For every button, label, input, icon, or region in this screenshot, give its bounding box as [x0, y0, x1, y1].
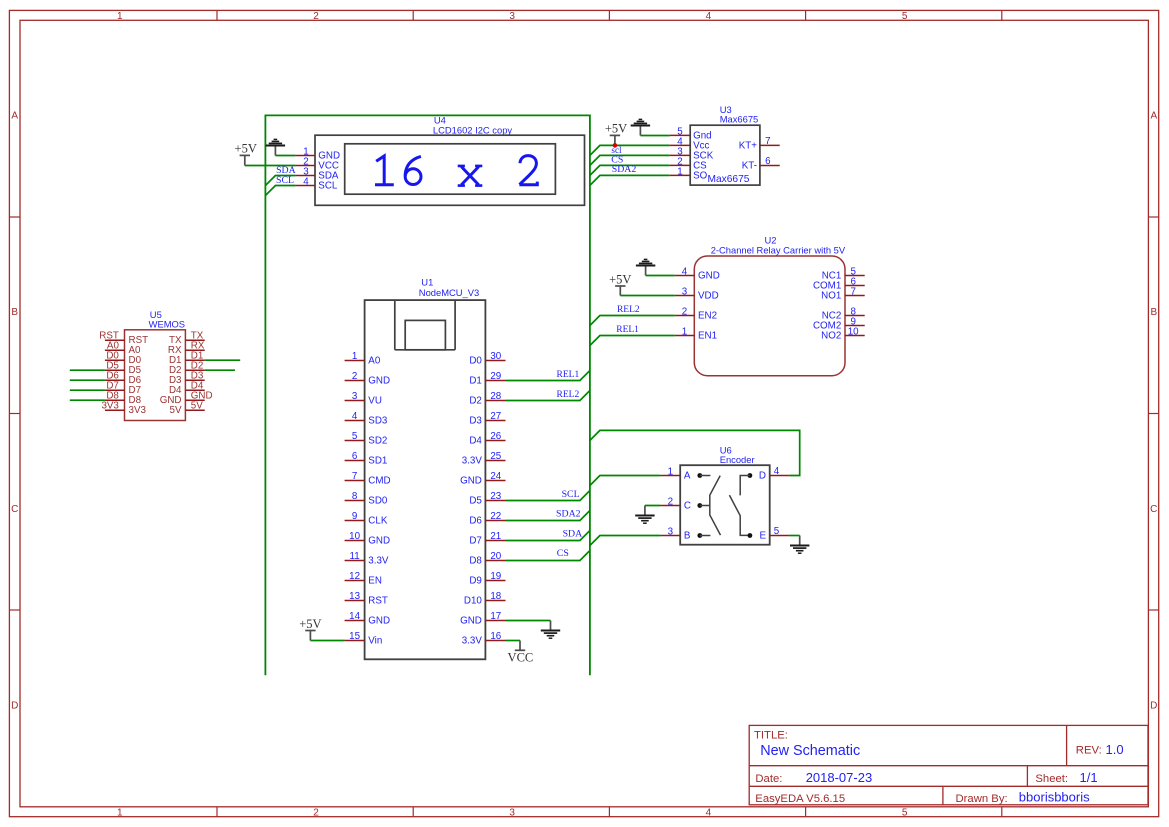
wire bus to U6 D loop: [590, 430, 800, 475]
svg-text:GND: GND: [368, 376, 390, 387]
svg-text:4: 4: [774, 466, 780, 477]
wire +5V to U2 VDD: [620, 295, 675, 297]
wire U5 D1 stub right: [205, 359, 241, 361]
svg-text:6: 6: [352, 451, 358, 462]
svg-text:29: 29: [490, 371, 501, 382]
svg-text:12: 12: [349, 571, 360, 582]
svg-text:9: 9: [352, 511, 357, 522]
svg-text:SD0: SD0: [368, 496, 388, 507]
svg-text:16: 16: [490, 631, 501, 642]
wire bus to U2 EN1: [590, 336, 675, 346]
svg-text:C: C: [1150, 504, 1157, 515]
svg-text:Max6675: Max6675: [708, 174, 750, 185]
svg-text:EasyEDA V5.6.15: EasyEDA V5.6.15: [755, 793, 845, 805]
svg-text:14: 14: [349, 611, 360, 622]
svg-text:VU: VU: [368, 396, 382, 407]
svg-text:NO1: NO1: [821, 291, 841, 302]
ground bar symbol at U3 Gnd: [631, 119, 650, 135]
svg-text:1: 1: [117, 807, 123, 818]
svg-text:D6: D6: [469, 516, 482, 527]
svg-text:CS: CS: [557, 548, 569, 559]
title block: [749, 725, 1148, 805]
svg-text:3: 3: [509, 807, 515, 818]
svg-text:3V3: 3V3: [101, 400, 119, 411]
svg-text:SD1: SD1: [368, 456, 387, 467]
svg-text:18: 18: [490, 591, 501, 602]
svg-text:+5V: +5V: [299, 617, 321, 631]
net label SCL at U1: [562, 489, 580, 500]
svg-text:SDA: SDA: [563, 529, 583, 540]
wire U6 E to ground: [789, 535, 799, 537]
svg-text:20: 20: [490, 551, 501, 562]
svg-text:2: 2: [313, 807, 319, 818]
svg-text:CMD: CMD: [368, 476, 390, 487]
LCD display U4 LCD1602 I2C copy: [295, 114, 584, 205]
svg-text:D: D: [1150, 700, 1157, 711]
svg-text:5: 5: [352, 431, 358, 442]
svg-text:D3: D3: [469, 416, 482, 427]
svg-text:C: C: [11, 504, 18, 515]
module U5 WEMOS: [99, 309, 212, 420]
svg-text:REL1: REL1: [557, 370, 580, 380]
svg-text:D5: D5: [469, 496, 482, 507]
svg-text:3.3V: 3.3V: [462, 456, 483, 467]
svg-text:3.3V: 3.3V: [368, 556, 389, 567]
svg-text:E: E: [759, 531, 766, 542]
svg-text:WEMOS: WEMOS: [149, 319, 185, 330]
ground earth symbol at U1 GND17: [541, 621, 560, 639]
svg-text:GND: GND: [460, 616, 482, 627]
wire bus to U3 CS: [590, 165, 670, 175]
svg-text:5V: 5V: [170, 405, 182, 416]
wire bus to U1 D8 CS: [506, 551, 590, 561]
wire bus to U6 B: [590, 536, 661, 546]
svg-text:2: 2: [352, 371, 357, 382]
svg-text:New Schematic: New Schematic: [760, 743, 860, 759]
relay module U2 2-Channel Relay Carrier with 5V: [675, 234, 865, 375]
svg-text:1: 1: [117, 11, 123, 22]
svg-text:7: 7: [850, 287, 855, 298]
net label SDA at U1: [563, 529, 583, 540]
svg-text:VCC: VCC: [508, 650, 534, 664]
wire bus to U1 D2 REL2: [506, 391, 590, 401]
svg-text:3: 3: [352, 391, 358, 402]
net label SCL: [276, 175, 294, 186]
svg-text:5V: 5V: [191, 400, 203, 411]
svg-text:30: 30: [490, 351, 501, 362]
wire +5V to U1 Vin: [310, 640, 344, 642]
svg-text:1: 1: [352, 351, 357, 362]
svg-text:EN: EN: [368, 576, 382, 587]
svg-text:D2: D2: [469, 396, 482, 407]
svg-text:Encoder: Encoder: [720, 454, 755, 465]
svg-text:A: A: [11, 111, 18, 122]
svg-text:3: 3: [668, 527, 674, 538]
svg-text:SO: SO: [693, 170, 708, 181]
svg-text:CLK: CLK: [368, 516, 388, 527]
svg-text:15: 15: [349, 631, 360, 642]
svg-text:NO2: NO2: [821, 331, 841, 342]
wire U5 D5 stub left: [70, 369, 105, 371]
wire +5V to U4 VCC: [245, 165, 296, 167]
wire SDA to U4 pin3: [265, 176, 295, 186]
svg-text:3: 3: [509, 11, 515, 22]
svg-text:2: 2: [313, 11, 319, 22]
svg-text:GND: GND: [698, 271, 720, 282]
wire U6 C to ground: [645, 505, 661, 507]
net label SDA2 at U3: [612, 164, 637, 175]
svg-text:+5V: +5V: [235, 142, 257, 156]
wire U1 GND17 to ground: [506, 620, 551, 622]
wire green bus U-shape: [265, 115, 590, 675]
svg-text:GND: GND: [368, 536, 390, 547]
net label CS at U3: [611, 154, 623, 165]
svg-text:2: 2: [668, 497, 673, 508]
wire bus to U3 Vcc: [590, 145, 670, 155]
svg-text:+5V: +5V: [605, 122, 627, 136]
svg-text:1/1: 1/1: [1080, 770, 1098, 785]
svg-text:7: 7: [352, 471, 357, 482]
svg-text:13: 13: [349, 591, 360, 602]
svg-text:1: 1: [682, 327, 687, 338]
net label scl: [611, 145, 622, 155]
svg-text:1.0: 1.0: [1106, 742, 1124, 757]
svg-text:Date:: Date:: [755, 773, 782, 785]
rotary encoder U6: [661, 444, 790, 544]
wire SCL to U4 pin4: [265, 186, 295, 196]
svg-text:11: 11: [350, 551, 360, 562]
svg-text:TITLE:: TITLE:: [754, 730, 788, 742]
svg-text:EN2: EN2: [698, 311, 717, 322]
svg-text:SCL: SCL: [562, 489, 580, 500]
wire bus to U3 SO: [590, 175, 670, 185]
svg-text:10: 10: [349, 531, 360, 542]
svg-text:21: 21: [490, 531, 501, 542]
microcontroller U1 NodeMCU_V3: [345, 277, 506, 660]
IC U3 Max6675: [670, 104, 780, 185]
wire bus to U2 EN2: [590, 316, 675, 326]
svg-text:KT+: KT+: [739, 140, 758, 151]
wire bus to U6 A: [590, 476, 661, 486]
svg-text:D9: D9: [469, 576, 482, 587]
svg-text:Max6675: Max6675: [720, 113, 759, 124]
svg-text:A: A: [684, 471, 691, 482]
svg-text:A0: A0: [368, 356, 381, 367]
svg-text:3: 3: [682, 287, 688, 298]
svg-text:23: 23: [490, 491, 501, 502]
wire U5 D7 stub left: [70, 389, 105, 391]
svg-text:22: 22: [490, 511, 501, 522]
svg-text:REL1: REL1: [616, 325, 639, 335]
svg-text:7: 7: [765, 136, 770, 147]
svg-text:4: 4: [706, 807, 712, 818]
svg-text:GND: GND: [368, 616, 390, 627]
wire U2 GND to ground: [646, 275, 675, 277]
wire U3 Gnd to ground: [640, 135, 669, 137]
svg-text:A: A: [1150, 111, 1157, 122]
ground earth symbol at U6 C: [635, 506, 654, 524]
wire bus to U1 D1 REL1: [506, 371, 590, 381]
wire U5 D8 stub left: [70, 399, 105, 401]
svg-text:C: C: [684, 501, 691, 512]
svg-text:2-Channel Relay Carrier with 5: 2-Channel Relay Carrier with 5V: [711, 245, 846, 256]
svg-text:17: 17: [490, 611, 501, 622]
svg-text:26: 26: [490, 431, 501, 442]
wire bus to U1 D6 SDA2: [506, 511, 590, 521]
svg-text:D: D: [11, 700, 18, 711]
svg-text:REL2: REL2: [557, 390, 580, 400]
svg-text:10: 10: [848, 327, 859, 338]
net label CS at U1: [557, 548, 569, 559]
power +5V at U1 Vin: [299, 617, 321, 641]
svg-text:6: 6: [765, 156, 771, 167]
svg-text:SDA2: SDA2: [612, 164, 637, 175]
svg-text:4: 4: [706, 11, 712, 22]
svg-text:3V3: 3V3: [129, 405, 147, 416]
svg-text:B: B: [684, 531, 691, 542]
svg-text:SD3: SD3: [368, 416, 388, 427]
wire U1 3.3V16 to VCC: [506, 640, 521, 642]
wire bus to U1 D7 SDA: [506, 531, 590, 541]
svg-text:D: D: [759, 471, 766, 482]
svg-text:1: 1: [677, 167, 682, 178]
ground bar symbol at U4 GND: [266, 139, 285, 155]
svg-text:4: 4: [352, 411, 358, 422]
svg-text:D1: D1: [469, 376, 482, 387]
power +5V at U4 VCC: [235, 142, 257, 166]
wire bus to U1 D5 SCL: [506, 491, 590, 501]
svg-text:SCL: SCL: [318, 181, 338, 192]
svg-text:D10: D10: [464, 596, 483, 607]
svg-text:4: 4: [682, 267, 688, 278]
svg-text:VDD: VDD: [698, 291, 719, 302]
svg-text:RST: RST: [368, 596, 388, 607]
power +5V at U3 Vcc: [605, 122, 627, 146]
svg-text:27: 27: [490, 411, 501, 422]
svg-text:SD2: SD2: [368, 436, 387, 447]
svg-text:8: 8: [352, 491, 358, 502]
svg-text:EN1: EN1: [698, 331, 717, 342]
svg-text:NodeMCU_V3: NodeMCU_V3: [419, 287, 479, 298]
net label REL1 at U1: [557, 370, 580, 380]
svg-text:1: 1: [668, 467, 673, 478]
power +5V at U2 VDD: [609, 272, 631, 295]
svg-text:REL2: REL2: [617, 305, 640, 315]
svg-text:B: B: [1150, 307, 1157, 318]
wire U5 D6 stub left: [70, 379, 105, 381]
svg-text:B: B: [11, 307, 18, 318]
wire bus to U3 SCK: [590, 155, 670, 165]
ground bar symbol at U2 GND: [636, 259, 655, 275]
svg-text:KT-: KT-: [742, 161, 757, 172]
svg-text:bborisbboris: bborisbboris: [1019, 789, 1090, 804]
svg-text:+5V: +5V: [609, 272, 631, 286]
svg-text:19: 19: [490, 571, 501, 582]
svg-text:Sheet:: Sheet:: [1035, 773, 1068, 785]
svg-text:3.3V: 3.3V: [462, 636, 483, 647]
svg-text:24: 24: [490, 471, 501, 482]
svg-text:D0: D0: [469, 356, 482, 367]
svg-text:REV:: REV:: [1076, 745, 1102, 757]
net label REL1 at U2: [616, 325, 639, 335]
ground earth symbol at U6 E: [790, 536, 809, 554]
net label SDA: [276, 165, 296, 176]
svg-text:SCL: SCL: [276, 175, 294, 186]
svg-text:SDA2: SDA2: [556, 509, 581, 520]
svg-text:D8: D8: [469, 556, 482, 567]
svg-text:D7: D7: [469, 536, 482, 547]
svg-text:LCD1602 I2C copy: LCD1602 I2C copy: [433, 124, 513, 135]
svg-text:Drawn By:: Drawn By:: [956, 793, 1008, 805]
svg-text:Vin: Vin: [368, 636, 382, 647]
junction dot scl: [613, 143, 618, 148]
svg-text:5: 5: [774, 526, 780, 537]
svg-text:25: 25: [490, 451, 501, 462]
net label REL2 at U2: [617, 305, 640, 315]
wire U5 D2 stub right: [205, 369, 235, 371]
svg-text:GND: GND: [460, 476, 482, 487]
power VCC at U1 pin16: [508, 641, 534, 665]
svg-text:4: 4: [303, 177, 309, 188]
net label REL2 at U1: [557, 390, 580, 400]
svg-text:D4: D4: [469, 436, 482, 447]
svg-text:5: 5: [902, 807, 908, 818]
svg-text:28: 28: [490, 391, 501, 402]
net label SDA2 at U1: [556, 509, 581, 520]
svg-text:2: 2: [682, 307, 687, 318]
svg-text:2018-07-23: 2018-07-23: [806, 770, 873, 785]
svg-text:5: 5: [902, 11, 908, 22]
wire U4 GND to ground: [275, 155, 295, 157]
